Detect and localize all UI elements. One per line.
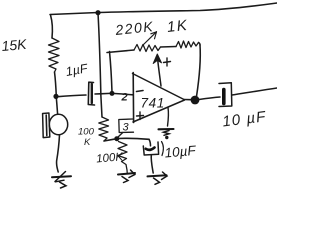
svg-text:741: 741 bbox=[141, 96, 165, 111]
svg-text:220K: 220K bbox=[114, 18, 155, 38]
svg-text:K: K bbox=[84, 137, 91, 148]
svg-text:10 µF: 10 µF bbox=[221, 108, 267, 130]
svg-text:3: 3 bbox=[123, 122, 130, 134]
svg-text:15K: 15K bbox=[1, 36, 28, 54]
svg-text:2: 2 bbox=[121, 92, 128, 104]
svg-text:1µF: 1µF bbox=[65, 61, 90, 79]
svg-text:100K: 100K bbox=[96, 151, 125, 165]
svg-text:10µF: 10µF bbox=[164, 143, 197, 161]
svg-text:1K: 1K bbox=[166, 17, 189, 36]
svg-text:100: 100 bbox=[78, 127, 95, 138]
